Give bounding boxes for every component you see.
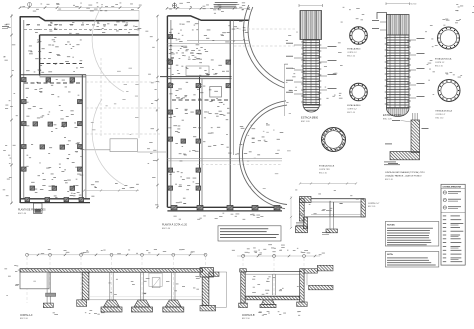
section 3 footing: [262, 300, 275, 305]
svg-text:ESC 1:50: ESC 1:50: [242, 318, 250, 320]
section 1 right stub: [209, 272, 227, 308]
svg-text:JUNTA DE BETONAGEM (TYPICAL) T: JUNTA DE BETONAGEM (TYPICAL) TIPO: [385, 171, 425, 174]
middle plan annotations left of pile: [284, 32, 297, 103]
left plan right edge thin outline: [138, 10, 140, 138]
middle plan lower tank ring: [239, 101, 287, 209]
left plan step rectangle: [84, 139, 166, 152]
middle plan left inner wall line: [170, 20, 172, 207]
section 1 inner annotations: [109, 276, 200, 295]
tank section texts below: [296, 223, 331, 236]
section 3 top slab: [245, 272, 302, 275]
pile section E circle: [436, 80, 461, 120]
middle plan top margin texts: [169, 2, 250, 14]
left plan right wall of main room: [82, 75, 86, 200]
left plan bottom area annotations: [54, 182, 139, 197]
middle plan right wall: [230, 20, 233, 207]
left plan lower dim line: [83, 189, 139, 191]
middle plan small square opening: [210, 87, 222, 98]
svg-text:ESC 1:10: ESC 1:10: [319, 172, 327, 174]
svg-text:CORTE 1-1': CORTE 1-1': [435, 62, 445, 64]
middle plan lower left annotations: [168, 125, 201, 203]
left plan bottom stub: [34, 203, 43, 213]
junta detail header lines: [384, 162, 400, 166]
left plan thin wall continuation: [86, 75, 139, 77]
svg-text:ESC 1:10: ESC 1:10: [385, 179, 393, 181]
pile section C hatched circle: [319, 128, 346, 175]
top left misc marks: [2, 3, 32, 29]
middle plan upper tank ring: [243, 5, 284, 88]
tank section lower column: [326, 217, 338, 233]
pile detail 1 rounded bottom: [303, 105, 320, 113]
pile detail 2 rounded bottom: [387, 108, 410, 117]
junta detail base slab bar: [390, 152, 420, 160]
pile detail 2 right callouts: [409, 38, 425, 98]
svg-text:No 900: No 900: [411, 4, 417, 6]
section 3 label: [242, 315, 255, 320]
left plan main room annotations: [26, 79, 85, 198]
left plan dashed beam row upper: [40, 63, 82, 65]
section 1 right T pier: [200, 268, 216, 311]
tank section label: [368, 203, 380, 208]
pile detail 1 stirrup edge ticks: [301, 42, 321, 105]
section 1 top slab hatched band: [20, 269, 203, 273]
section 1 label: [20, 314, 33, 320]
tank section left dim: [290, 196, 292, 229]
svg-text:ESTACA Ø800: ESTACA Ø800: [301, 116, 319, 120]
left plan top margin texts: [22, 3, 141, 12]
left plan left margin texts: [3, 24, 18, 196]
svg-text:NOTA:: NOTA:: [387, 253, 394, 256]
pile section B circle: [347, 83, 367, 114]
pile section A circle: [347, 27, 367, 58]
svg-text:PLANTA À COTA +1.20: PLANTA À COTA +1.20: [162, 224, 188, 227]
pile detail 2 top hook: [377, 13, 387, 20]
junta detail callouts: [385, 120, 429, 164]
section 1 left margin marks: [4, 265, 20, 296]
section 1 footing 2: [134, 300, 150, 307]
pile detail 1 label: [301, 116, 319, 124]
section 3 left wall: [239, 269, 248, 308]
left plan upper room annotations: [26, 37, 84, 73]
section 1 dim row with grid bubbles: [26, 253, 208, 256]
circle section callout texts: [442, 19, 461, 26]
section 1 under footing texts: [53, 310, 113, 315]
tank section bottom lines: [304, 215, 365, 217]
pile detail 2 top dimension: [386, 2, 416, 5]
section 1 inner opening box: [149, 273, 162, 288]
tank section top left corner: [300, 197, 312, 203]
middle note box: [218, 226, 281, 241]
left plan top band inner wall: [40, 34, 140, 36]
svg-text:CORTE TIPO: CORTE TIPO: [319, 169, 331, 171]
middle plan bottom wall band: [167, 207, 282, 211]
texts right of pile 1: [324, 43, 343, 99]
pile detail 1 cap with vertical rebars: [300, 11, 322, 40]
tank section right wall: [361, 199, 365, 217]
svg-text:ESTACA Ø1300-A: ESTACA Ø1300-A: [383, 113, 404, 117]
tank section left wall: [296, 199, 308, 233]
svg-text:ESTACA Ø800: ESTACA Ø800: [347, 48, 361, 51]
texts above circle A: [341, 7, 365, 23]
middle plan interior horizontal wall: [160, 77, 232, 79]
left plan right area annotations: [91, 68, 139, 135]
svg-text:ESC 1:10: ESC 1:10: [347, 55, 355, 57]
pile detail 2 left callouts: [372, 20, 387, 30]
middle plan dense annotation cluster: [166, 45, 213, 64]
section 3 annotations: [252, 276, 299, 295]
middle plan tank grid dashed lines: [234, 29, 296, 46]
tank section top slab: [311, 199, 364, 202]
section 3 dim row with grid bubbles: [237, 255, 320, 258]
svg-text:CORTE 2-2': CORTE 2-2': [436, 114, 446, 116]
pile detail 2 stirrup edge ticks: [385, 38, 411, 107]
left plan faint upper tank arc: [92, 6, 124, 92]
section 3 under texts: [258, 311, 301, 316]
middle plan interior line y43: [167, 43, 248, 45]
section 1 footing 1: [104, 300, 120, 307]
section 3 right stub connector: [306, 273, 308, 285]
section 3 right wall: [297, 269, 308, 307]
section 3 top annotations: [232, 244, 298, 253]
svg-text:ESC 1:10: ESC 1:10: [435, 65, 443, 67]
left plan column footings: [22, 78, 84, 202]
tank section annotations: [295, 190, 365, 216]
middle plan interior vertical wall: [200, 77, 203, 208]
svg-text:L60: L60: [33, 281, 36, 283]
middle plan dashed beam row: [172, 99, 230, 101]
svg-text:ESTACA Ø1300-A: ESTACA Ø1300-A: [436, 110, 453, 113]
svg-text:CORTE A-A': CORTE A-A': [20, 314, 33, 317]
svg-text:ESTACA Ø800: ESTACA Ø800: [347, 104, 361, 107]
left plan top band dashed centerline: [24, 29, 139, 31]
pile detail 2 cap with vertical rebars: [387, 15, 410, 36]
middle plan top note text block: [214, 2, 238, 8]
junta detail title: [385, 171, 425, 181]
section 1 footing 3: [165, 300, 181, 307]
svg-text:CORTE C-C': CORTE C-C': [368, 203, 380, 205]
circle section E callout texts: [445, 72, 462, 77]
middle plan upper interior line: [167, 40, 248, 46]
pile detail 1 top dimension: [299, 4, 323, 7]
section 1 dim texts: [41, 249, 195, 254]
middle plan column footings: [168, 35, 280, 210]
left plan interior vertical wall: [39, 35, 41, 76]
left plan faint lower tank arc: [92, 99, 124, 185]
texts top far right: [455, 4, 474, 13]
legend table: [441, 184, 465, 265]
svg-text:NOTAS:: NOTAS:: [387, 223, 395, 226]
svg-text:CORTE 1-1': CORTE 1-1': [347, 52, 357, 54]
section 1 columns: [110, 272, 175, 300]
section 1 column at grid 50: [43, 272, 55, 307]
svg-text:LIGAÇÃO PAREDE - LAJE DE FUNDO: LIGAÇÃO PAREDE - LAJE DE FUNDO: [385, 175, 422, 178]
section 3 right stub upper: [304, 265, 333, 273]
svg-text:CORTE B-B': CORTE B-B': [242, 315, 255, 317]
section 3 bottom floor slab: [245, 295, 300, 300]
middle plan top dimension line: [166, 7, 250, 9]
tank section internal wall: [330, 202, 334, 217]
left plan interior horizontal wall: [20, 75, 86, 77]
tank section dim row: [299, 182, 357, 184]
middle plan left dimension line: [156, 15, 158, 209]
middle plan left outer wall: [166, 16, 168, 207]
svg-text:ESC 1:50: ESC 1:50: [18, 213, 26, 215]
svg-text:ESTACA Ø1300-A: ESTACA Ø1300-A: [435, 58, 452, 61]
middle plan lower floor lines: [167, 158, 282, 164]
pile detail 2 label: [383, 113, 404, 121]
middle plan title PLANTA A COTA: [162, 224, 188, 231]
svg-text:ESC 1:10: ESC 1:10: [347, 112, 355, 114]
left plan left dimension line: [10, 14, 13, 204]
middle plan lower right annotations: [203, 123, 283, 155]
left plan outer top wall: [20, 17, 139, 21]
left plan top band annotations: [27, 22, 141, 35]
section 1 floor line: [89, 297, 202, 300]
left plan top band thin outer line: [57, 9, 139, 11]
svg-text:ESTACA Ø200-B: ESTACA Ø200-B: [319, 165, 335, 168]
notes box 2: [385, 252, 439, 268]
section 3 grid dashed verticals: [243, 258, 304, 303]
left plan top dimension line: [19, 6, 141, 9]
middle plan jog vertical line: [197, 20, 199, 43]
dim marks left of circle D E: [425, 25, 438, 95]
section 1 main wall: [77, 272, 89, 306]
middle plan outer top wall: [167, 16, 248, 20]
svg-text:CORTE 2-2': CORTE 2-2': [347, 108, 357, 110]
middle plan mid band annotations: [167, 64, 229, 75]
left plan left outer wall: [19, 16, 21, 203]
middle plan tank area annotations: [239, 113, 291, 189]
pile detail 1 shaft with stirrups: [303, 11, 320, 105]
svg-text:ESC 1:50: ESC 1:50: [162, 228, 170, 230]
north arrow symbol: [172, 3, 176, 9]
pile detail 1 left callouts: [286, 43, 303, 94]
pile detail 1 right callouts: [320, 46, 337, 90]
section 3 column pair: [273, 274, 276, 295]
left plan left inner wall line: [23, 20, 25, 199]
svg-text:ESC 1:10: ESC 1:10: [436, 117, 444, 119]
svg-text:ESC 1:20: ESC 1:20: [383, 119, 392, 121]
section 1 left basin box: [20, 272, 49, 289]
middle plan upper room box: [186, 66, 209, 76]
section 3 right stub lower: [309, 285, 333, 290]
left plan title PLANTA DE FUNDACOES: [18, 209, 46, 215]
pile detail 2 shaft with stirrups: [387, 15, 410, 109]
left plan dashed beam row lower: [24, 82, 82, 84]
left plan grid dashed lines: [86, 58, 160, 136]
left plan bottom wall band: [20, 199, 90, 203]
middle plan right boundary line: [284, 64, 286, 116]
notes box 1: [385, 222, 439, 247]
section 3 dim texts: [243, 250, 325, 256]
junta detail wall bar: [411, 113, 420, 153]
middle plan below band texts: [174, 213, 264, 220]
middle plan top band annotations: [169, 21, 248, 42]
svg-text:ESC 1:50: ESC 1:50: [20, 318, 28, 320]
pile section D circle: [435, 27, 460, 67]
middle plan central room annotations: [167, 82, 230, 121]
svg-text:PLANTA DE FUNDAÇÕES: PLANTA DE FUNDAÇÕES: [18, 209, 46, 212]
svg-text:ESC 1:20: ESC 1:20: [368, 206, 375, 208]
left plan top band tick dashes: [26, 24, 128, 27]
middle plan left margin texts: [145, 31, 158, 205]
section 1 grid dashed verticals: [27, 257, 206, 303]
svg-text:ESC 1:20: ESC 1:20: [301, 121, 310, 123]
